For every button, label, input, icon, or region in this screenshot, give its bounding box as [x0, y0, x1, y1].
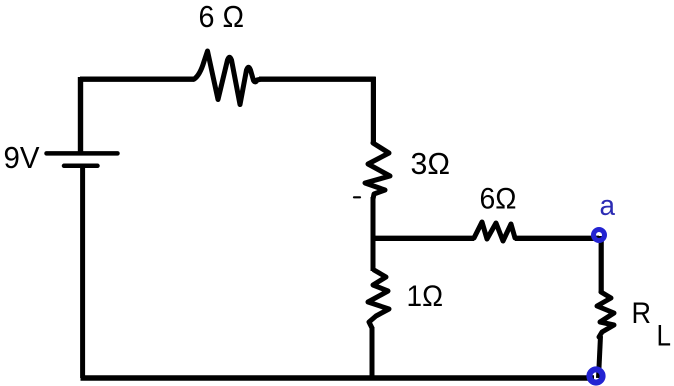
wire right rail lower — [599, 336, 601, 378]
wire top horizontal left segment — [80, 76, 194, 81]
wire right branch middle — [371, 197, 376, 271]
svg-text:6 Ω: 6 Ω — [199, 0, 245, 34]
svg-text:9V: 9V — [4, 140, 40, 175]
node b terminal ring — [589, 369, 602, 382]
battery V1 9V bottom plate — [64, 164, 98, 169]
wire right branch lower — [370, 327, 375, 378]
svg-text:a: a — [600, 190, 616, 222]
wire middle horizontal left segment — [373, 236, 475, 241]
svg-text:L: L — [657, 320, 672, 353]
svg-text:1Ω: 1Ω — [407, 280, 444, 313]
wire top horizontal right segment — [259, 76, 376, 81]
svg-text:3Ω: 3Ω — [411, 146, 451, 181]
battery V1 9V top plate — [47, 151, 118, 156]
resistor RL load — [597, 292, 614, 337]
resistor R 3 ohm vertical — [365, 143, 390, 199]
wire left rail lower — [80, 167, 85, 378]
node a terminal ring — [594, 230, 605, 241]
wire middle horizontal right segment — [515, 236, 599, 241]
wire left rail upper — [78, 77, 83, 152]
resistor R 1 ohm vertical — [368, 270, 389, 328]
wire right branch upper — [371, 77, 376, 144]
stray mark — [354, 196, 360, 198]
resistor R 6 ohm horizontal — [474, 222, 515, 241]
resistor R 6 ohm top — [194, 51, 260, 105]
wire bottom horizontal — [81, 375, 595, 381]
wire right rail upper — [599, 236, 604, 293]
svg-text:R: R — [632, 297, 652, 330]
svg-text:6Ω: 6Ω — [480, 183, 517, 216]
